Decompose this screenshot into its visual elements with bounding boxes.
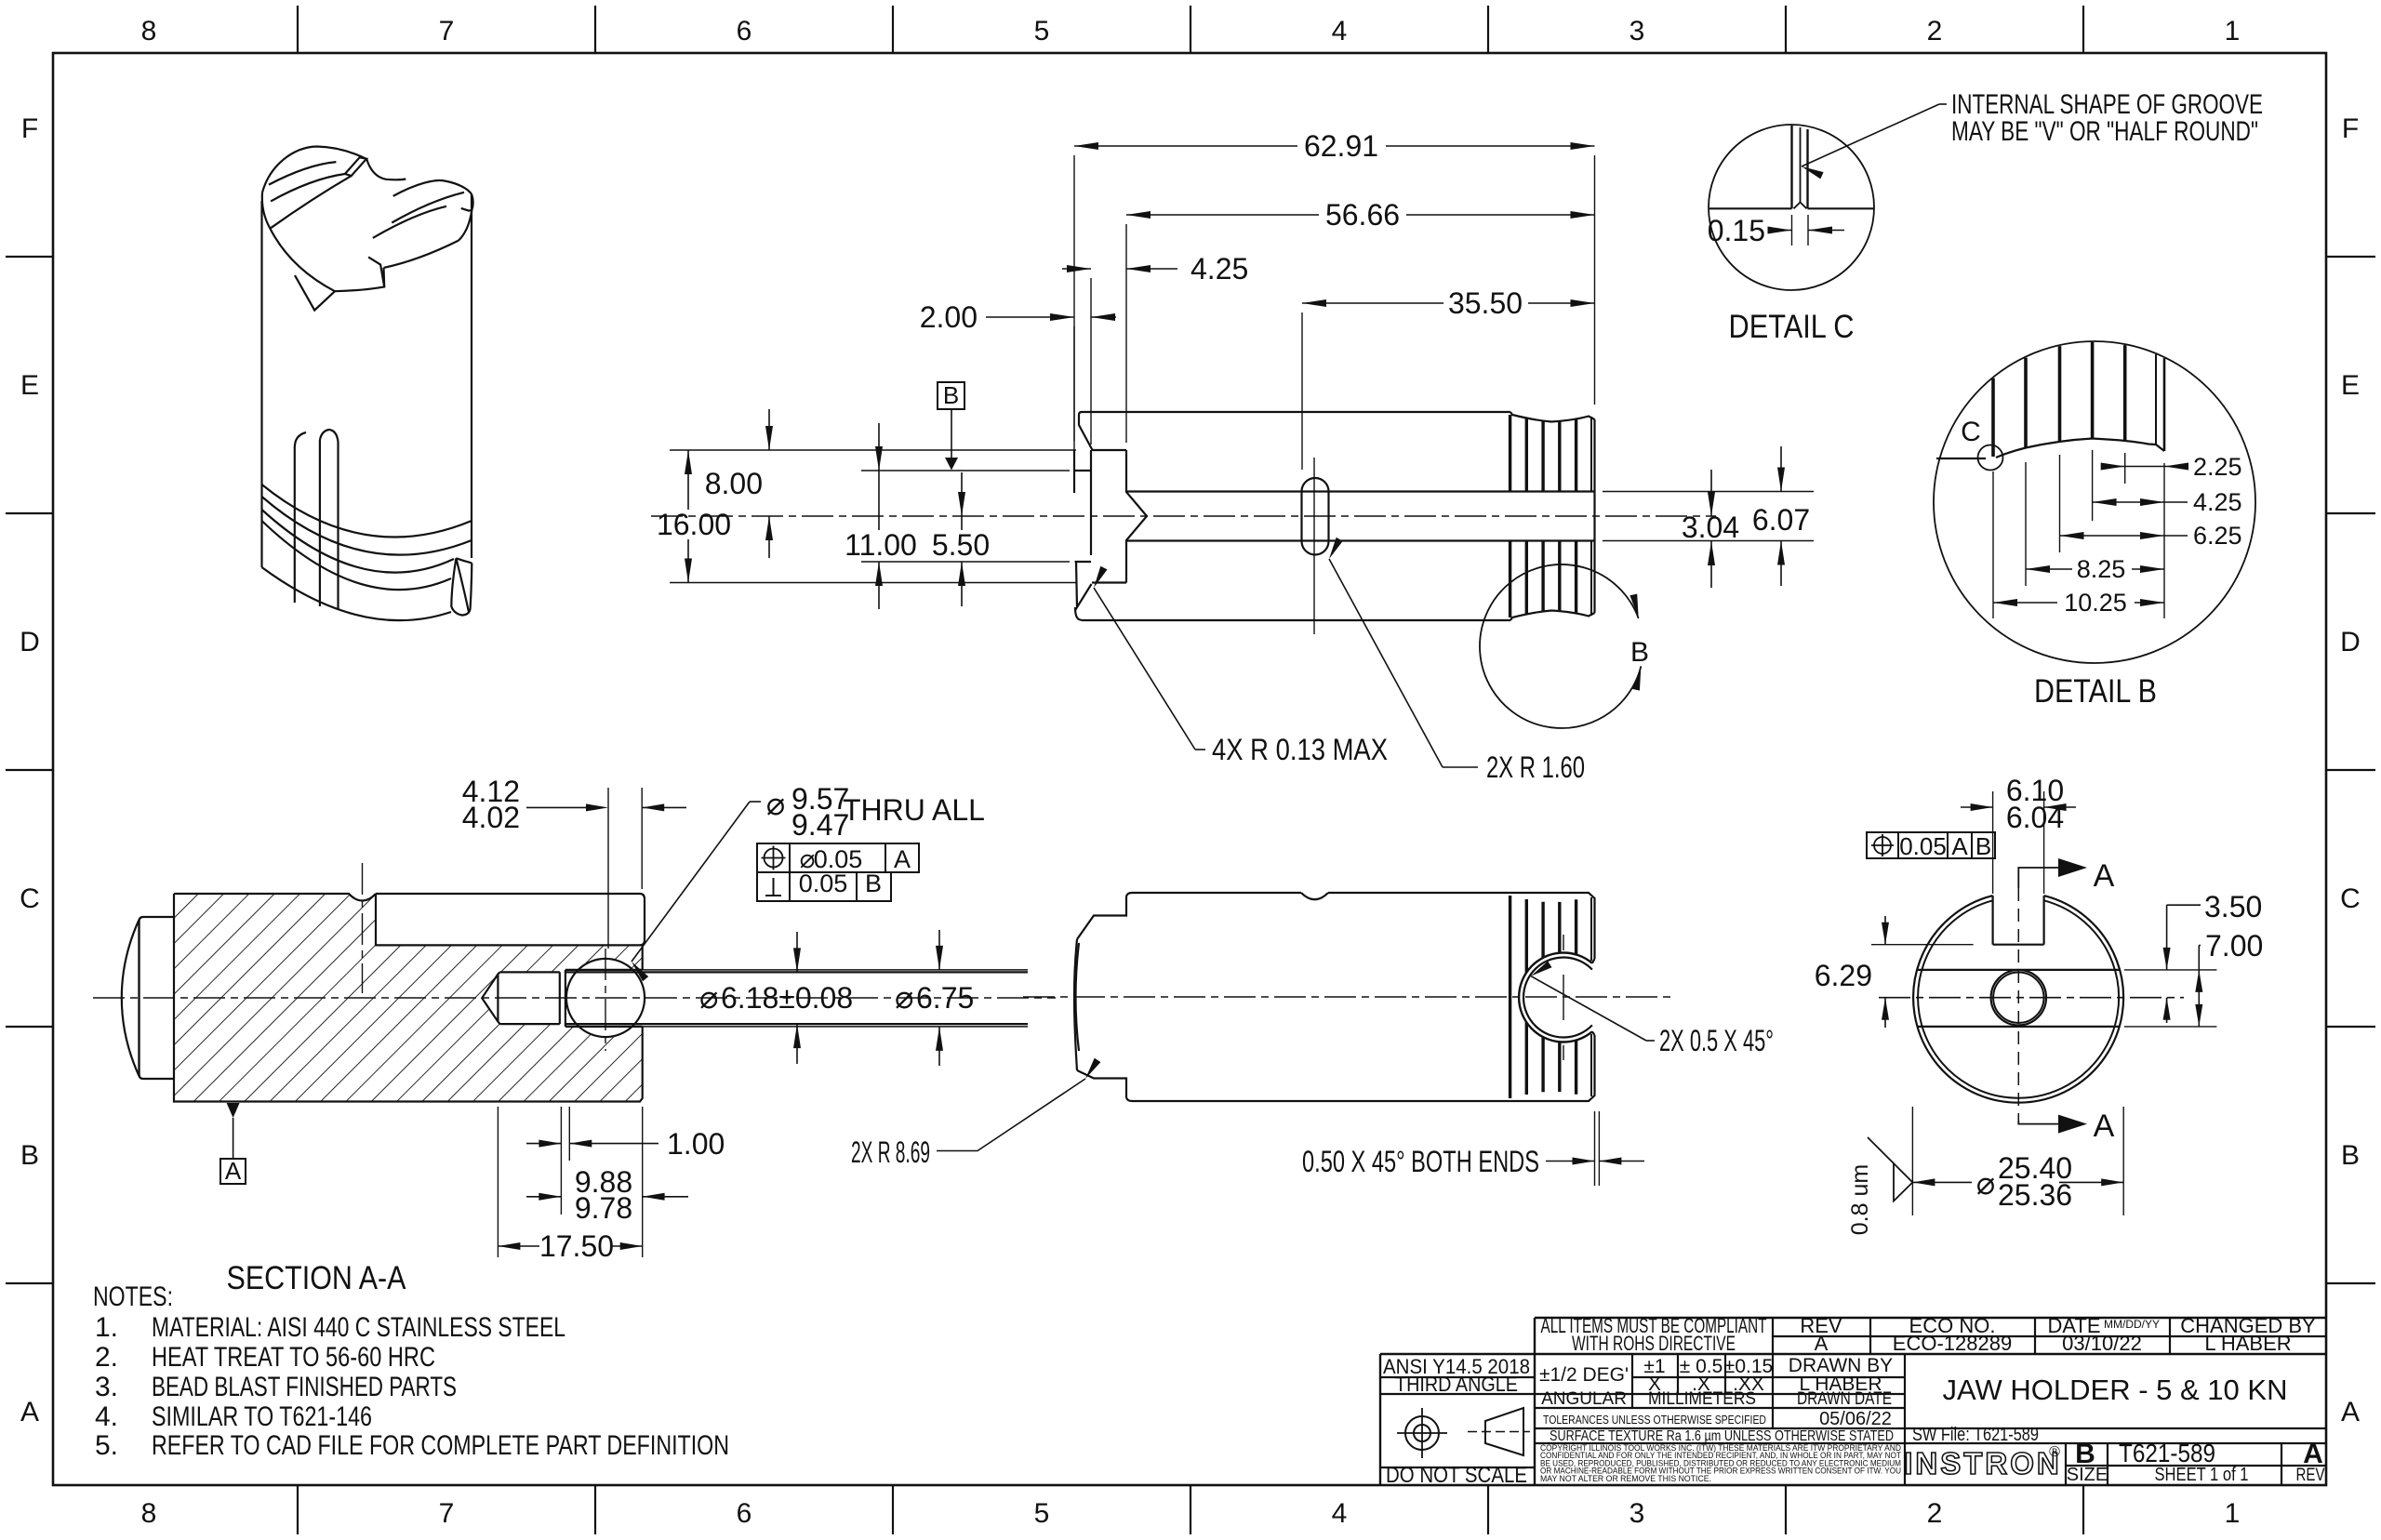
svg-text:0.8 um: 0.8 um xyxy=(1847,1164,1873,1235)
zone labels right xyxy=(2340,113,2361,1427)
svg-text:2.00: 2.00 xyxy=(920,300,978,334)
svg-text:5: 5 xyxy=(1034,1498,1050,1529)
dimension 4.25 detail B xyxy=(2093,488,2242,516)
svg-text:B: B xyxy=(865,870,882,897)
svg-text:0.05: 0.05 xyxy=(1899,832,1947,860)
dimension 3.50 leader xyxy=(2124,890,2262,1023)
dimension 0.15 xyxy=(1708,214,1844,247)
zone labels top xyxy=(141,16,2241,46)
bottom view right face xyxy=(1510,893,1595,1101)
svg-text:⌀: ⌀ xyxy=(895,980,913,1016)
size B and part number xyxy=(2067,1439,2325,1485)
svg-text:8: 8 xyxy=(141,1498,157,1529)
section A-A cross hole centerline xyxy=(362,863,364,993)
svg-text:10.25: 10.25 xyxy=(2064,589,2127,617)
svg-text:2.25: 2.25 xyxy=(2193,453,2242,481)
section A-A keyway hole circle (white) xyxy=(566,959,645,1037)
dimension 35.50 xyxy=(1302,286,1595,470)
svg-text:B: B xyxy=(2341,1140,2360,1171)
title block copyright fine print xyxy=(1540,1443,1901,1483)
dimension 4.25 xyxy=(1062,252,1248,445)
svg-text:1.: 1. xyxy=(95,1312,118,1343)
datum A flag xyxy=(220,1103,246,1185)
dimension 6.10 / 6.04 xyxy=(1961,774,2076,894)
svg-text:4.25: 4.25 xyxy=(1190,252,1248,285)
dimension 2.25 xyxy=(2101,453,2242,481)
svg-text:SHEET 1 of 1: SHEET 1 of 1 xyxy=(2155,1465,2249,1485)
svg-text:8.00: 8.00 xyxy=(705,467,763,500)
svg-text:3.: 3. xyxy=(95,1372,118,1402)
svg-text:DETAIL B: DETAIL B xyxy=(2034,673,2157,710)
svg-text:B: B xyxy=(943,381,959,409)
top view: centerline xyxy=(651,515,1716,517)
dimension 62.91 xyxy=(1074,129,1595,450)
svg-text:2X 0.5 X 45°: 2X 0.5 X 45° xyxy=(1659,1024,1774,1057)
svg-text:6.18±0.08: 6.18±0.08 xyxy=(721,981,853,1015)
svg-text:9.78: 9.78 xyxy=(575,1191,632,1225)
svg-text:11.00: 11.00 xyxy=(845,528,917,562)
dimension 8.25 xyxy=(2026,555,2164,583)
dimension dia 9.57/9.47 THRU ALL with leader xyxy=(632,782,985,981)
dimension 6.07 xyxy=(1752,446,1810,586)
end view inner circle xyxy=(1918,900,2119,1097)
svg-text:2.: 2. xyxy=(95,1342,118,1373)
svg-text:6.29: 6.29 xyxy=(1815,959,1872,992)
detail C groove lines xyxy=(1709,126,1874,208)
top view: cross-hole centerline xyxy=(1313,458,1315,634)
svg-text:A: A xyxy=(225,1157,242,1185)
detail B circle xyxy=(1934,341,2255,663)
svg-text:56.66: 56.66 xyxy=(1325,198,1400,232)
svg-text:9.47: 9.47 xyxy=(791,808,849,842)
dimension 8.00 xyxy=(705,409,773,558)
svg-text:ECO-128289: ECO-128289 xyxy=(1893,1332,2012,1355)
svg-text:A: A xyxy=(2094,858,2115,894)
datum B flag on top view xyxy=(938,381,964,471)
svg-text:HEAT TREAT TO 56-60 HRC: HEAT TREAT TO 56-60 HRC xyxy=(152,1342,435,1373)
svg-text:1: 1 xyxy=(2225,16,2241,46)
svg-text:®: ® xyxy=(2049,1444,2060,1460)
svg-text:6.07: 6.07 xyxy=(1752,503,1810,537)
end view cross-hole chords xyxy=(1917,970,2120,1027)
svg-text:REFER TO CAD FILE FOR COMPLETE: REFER TO CAD FILE FOR COMPLETE PART DEFI… xyxy=(152,1430,729,1461)
dimension 6.25 xyxy=(2060,522,2242,550)
dimension 2.00 xyxy=(920,300,1116,441)
svg-text:5.: 5. xyxy=(95,1430,118,1461)
bottom view outline xyxy=(1074,893,1510,1101)
section A-A left dome cap xyxy=(122,917,174,1079)
top view: cross-hole obround xyxy=(1302,478,1329,555)
svg-text:8: 8 xyxy=(141,16,157,46)
leader 2X R 8.69 xyxy=(851,1058,1100,1169)
svg-text:A: A xyxy=(20,1397,39,1427)
svg-text:SECTION A-A: SECTION A-A xyxy=(227,1260,407,1296)
dimension dia 6.75 xyxy=(895,930,974,1066)
dimension dia 6.18 +/-0.08 xyxy=(699,932,853,1064)
svg-text:05/06/22: 05/06/22 xyxy=(1819,1409,1892,1429)
leader 2X R 1.60 xyxy=(1329,538,1585,784)
third angle projection symbol xyxy=(1468,1408,1530,1455)
dimension 4.12 / 4.02 xyxy=(462,775,686,949)
svg-text:REV: REV xyxy=(2296,1466,2325,1485)
svg-text:THRU ALL: THRU ALL xyxy=(843,793,985,827)
svg-text:1: 1 xyxy=(2225,1498,2241,1529)
svg-text:3.04: 3.04 xyxy=(1682,511,1739,544)
svg-text:16.00: 16.00 xyxy=(657,508,731,541)
dimension 0.50 X 45 BOTH ENDS xyxy=(1302,1111,1644,1186)
svg-text:ANGULAR: ANGULAR xyxy=(1541,1389,1627,1409)
svg-text:62.91: 62.91 xyxy=(1304,129,1378,163)
svg-text:A: A xyxy=(894,845,911,873)
end view center hole circles xyxy=(1991,970,2046,1025)
svg-text:THIRD ANGLE: THIRD ANGLE xyxy=(1395,1373,1518,1396)
detail B small circle C marker xyxy=(1978,445,2003,471)
svg-text:6: 6 xyxy=(737,1498,752,1529)
svg-text:B: B xyxy=(1630,637,1649,668)
svg-text:0.15: 0.15 xyxy=(1708,214,1765,247)
bottom view centerline xyxy=(1023,996,1674,998)
svg-text:SIZE: SIZE xyxy=(2067,1465,2108,1485)
zone labels bottom xyxy=(141,1498,2241,1529)
svg-text:2: 2 xyxy=(1927,1498,1943,1529)
feature control frame 0.05 A B xyxy=(1867,832,1995,860)
section A-A keyway circle centerline xyxy=(605,949,606,1051)
bottom view groove verticals xyxy=(1510,896,1591,1098)
svg-text:±1/2 DEG': ±1/2 DEG' xyxy=(1539,1364,1629,1386)
svg-text:⌀: ⌀ xyxy=(1976,1166,1995,1201)
svg-text:A: A xyxy=(1951,832,1968,860)
dimension dia 25.40/25.36 xyxy=(1912,1107,2123,1215)
svg-text:INSTRON: INSTRON xyxy=(1904,1446,2062,1480)
dimension 10.25 xyxy=(1993,589,2164,617)
svg-text:6: 6 xyxy=(737,16,752,46)
svg-text:WITH ROHS DIRECTIVE: WITH ROHS DIRECTIVE xyxy=(1572,1332,1736,1355)
feature control frame position 0.05 A xyxy=(757,843,919,873)
end view keyway slot xyxy=(1993,896,2044,945)
svg-text:A: A xyxy=(2341,1397,2360,1427)
svg-text:0.05: 0.05 xyxy=(799,870,848,897)
end view vertical centerline with section arrows xyxy=(2018,858,2114,1144)
svg-text:6.25: 6.25 xyxy=(2193,522,2242,550)
svg-text:DO NOT SCALE: DO NOT SCALE xyxy=(1386,1463,1527,1488)
svg-text:03/10/22: 03/10/22 xyxy=(2062,1332,2142,1355)
svg-text:D: D xyxy=(20,627,40,657)
svg-text:A: A xyxy=(1815,1332,1829,1355)
section A-A body outline xyxy=(174,894,645,1102)
svg-text:JAW HOLDER - 5 & 10 KN: JAW HOLDER - 5 & 10 KN xyxy=(1943,1374,2288,1406)
dimension 16.00 xyxy=(657,450,1076,583)
section A-A hatch pattern region xyxy=(174,894,643,1102)
svg-text:E: E xyxy=(2341,370,2360,401)
svg-text:DRAWN DATE: DRAWN DATE xyxy=(1797,1389,1892,1409)
dimension 5.50 xyxy=(932,472,990,606)
svg-text:35.50: 35.50 xyxy=(1448,286,1523,320)
svg-text:B: B xyxy=(1975,832,1991,860)
svg-text:3.50: 3.50 xyxy=(2204,890,2262,923)
svg-text:SW File: T621-589: SW File: T621-589 xyxy=(1912,1425,2039,1445)
svg-text:4.: 4. xyxy=(95,1401,118,1432)
dimension 9.88 / 9.78 xyxy=(526,1165,688,1225)
detail B groove band xyxy=(1936,342,2164,458)
svg-text:0.50 X 45° BOTH ENDS: 0.50 X 45° BOTH ENDS xyxy=(1302,1145,1539,1178)
svg-text:⌀: ⌀ xyxy=(766,787,785,822)
svg-text:4.25: 4.25 xyxy=(2193,488,2242,516)
svg-text:C: C xyxy=(1961,417,1981,447)
svg-text:MAY NOT ALTER OR REMOVE THIS N: MAY NOT ALTER OR REMOVE THIS NOTICE. xyxy=(1540,1474,1711,1483)
dimension 7.00 leader xyxy=(2124,929,2263,1027)
dimension 6.29 xyxy=(1815,916,1974,1028)
detail B dimension extension lines xyxy=(1993,450,2164,618)
svg-text:⌀: ⌀ xyxy=(699,980,718,1016)
svg-text:8.25: 8.25 xyxy=(2077,555,2126,583)
svg-text:A: A xyxy=(2094,1109,2115,1144)
svg-text:2X R 8.69: 2X R 8.69 xyxy=(851,1135,930,1169)
svg-text:SIMILAR TO T621-146: SIMILAR TO T621-146 xyxy=(152,1401,372,1432)
section A-A centerline xyxy=(93,997,1056,999)
svg-text:3: 3 xyxy=(1629,16,1645,46)
leader 4X R 0.13 MAX xyxy=(1094,566,1388,766)
svg-text:NOTES:: NOTES: xyxy=(93,1281,173,1312)
bottom view C-shaped slot xyxy=(1519,935,1594,1060)
svg-text:F: F xyxy=(2342,113,2359,144)
svg-text:6.75: 6.75 xyxy=(916,981,974,1015)
title block grid xyxy=(1380,1318,2326,1485)
dimension 56.66 xyxy=(1126,198,1595,443)
zone labels left xyxy=(20,113,40,1427)
svg-text:T621-589: T621-589 xyxy=(2119,1439,2215,1467)
svg-text:17.50: 17.50 xyxy=(539,1229,614,1263)
svg-text:4: 4 xyxy=(1332,16,1348,46)
svg-text:TOLERANCES UNLESS OTHERWISE SP: TOLERANCES UNLESS OTHERWISE SPECIFIED xyxy=(1543,1413,1766,1427)
svg-text:DETAIL C: DETAIL C xyxy=(1729,309,1855,345)
svg-text:BEAD BLAST FINISHED PARTS: BEAD BLAST FINISHED PARTS xyxy=(152,1372,457,1402)
detail C circle xyxy=(1709,125,1874,290)
notes list xyxy=(93,1281,729,1461)
svg-text:MAY BE "V" OR "HALF ROUND": MAY BE "V" OR "HALF ROUND" xyxy=(1951,116,2258,147)
svg-text:6.04: 6.04 xyxy=(2006,801,2064,834)
svg-text:4: 4 xyxy=(1332,1498,1348,1529)
svg-text:7: 7 xyxy=(439,1498,455,1529)
dimension 3.04 xyxy=(1603,470,1814,588)
svg-text:C: C xyxy=(2340,883,2361,914)
svg-text:MATERIAL: AISI 440 C STAINLESS: MATERIAL: AISI 440 C STAINLESS STEEL xyxy=(152,1312,565,1343)
leader 2X 0.5 X 45 deg xyxy=(1531,962,1774,1058)
svg-text:3: 3 xyxy=(1629,1498,1645,1529)
svg-text:7: 7 xyxy=(439,16,455,46)
svg-text:MM/DD/YY: MM/DD/YY xyxy=(2104,1318,2160,1331)
svg-text:L HABER: L HABER xyxy=(2204,1332,2291,1355)
svg-text:7.00: 7.00 xyxy=(2205,929,2263,962)
svg-text:F: F xyxy=(21,113,38,144)
detail circle B on top view xyxy=(1480,564,1649,728)
svg-text:2: 2 xyxy=(1927,16,1943,46)
svg-text:E: E xyxy=(20,370,39,401)
svg-text:4.02: 4.02 xyxy=(462,801,520,834)
dimension 1.00 xyxy=(526,1107,725,1215)
title block tolerance texts xyxy=(1383,1355,2039,1445)
svg-text:5.50: 5.50 xyxy=(932,528,990,562)
svg-text:C: C xyxy=(20,883,40,914)
svg-text:D: D xyxy=(2340,627,2361,657)
svg-text:2X R 1.60: 2X R 1.60 xyxy=(1486,750,1585,784)
svg-text:SURFACE TEXTURE Ra 1.6 µm UN: SURFACE TEXTURE Ra 1.6 µm UNLESS OTHERWI… xyxy=(1550,1428,1894,1444)
isometric view of jaw holder xyxy=(262,147,473,621)
svg-text:25.36: 25.36 xyxy=(1998,1178,2072,1212)
dimension 17.50 xyxy=(498,1107,642,1263)
svg-text:4X R 0.13 MAX: 4X R 0.13 MAX xyxy=(1212,733,1388,766)
svg-text:B: B xyxy=(20,1140,39,1171)
position symbol in title block xyxy=(1397,1408,1447,1458)
surface finish 0.8 um symbol xyxy=(1847,1137,1912,1235)
svg-text:MILLIMETERS: MILLIMETERS xyxy=(1648,1389,1756,1409)
end view outer circle xyxy=(1913,896,2123,1103)
dimension 11.00 xyxy=(845,423,1070,609)
section A-A pin with cone point xyxy=(482,970,1028,1027)
top view: jaw holder side profile outline xyxy=(1074,412,1595,620)
svg-text:1.00: 1.00 xyxy=(667,1127,725,1161)
svg-text:5: 5 xyxy=(1034,16,1050,46)
end view horizontal centerline xyxy=(1879,997,2184,999)
feature control frame perpendicularity 0.05 B xyxy=(757,870,891,901)
title block header texts xyxy=(1541,1314,2317,1355)
leader INTERNAL SHAPE OF GROOVE note xyxy=(1802,89,2263,179)
